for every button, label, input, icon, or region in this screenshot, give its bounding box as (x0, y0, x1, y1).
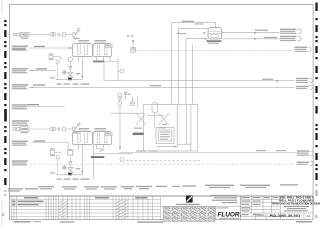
svg-text:0A: 0A (307, 214, 311, 218)
svg-text:PID-0000-30-001: PID-0000-30-001 (270, 214, 301, 218)
svg-text:PIPING AND INSTRUMENTATION DIA: PIPING AND INSTRUMENTATION DIAGRAM (272, 202, 320, 205)
svg-text:FLUOR.: FLUOR. (218, 212, 242, 219)
